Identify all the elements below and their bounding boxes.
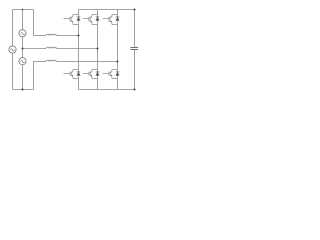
wire leg1 mid bbox=[78, 25, 80, 70]
wire leg2 bottom stub bbox=[97, 79, 99, 90]
wire leg3 mid bbox=[117, 25, 119, 70]
wire phase-c vertical to bottom bus bbox=[33, 62, 35, 90]
wire phase A right bbox=[56, 35, 78, 37]
node phase C / leg3 bbox=[116, 60, 118, 62]
inductor Lb bbox=[46, 47, 56, 48]
IGBT S3 bbox=[103, 15, 118, 25]
wire source branch 2 middle bbox=[22, 37, 24, 58]
diode D5 bbox=[96, 70, 100, 79]
node bottom source bus bbox=[21, 88, 23, 90]
inductor Lc bbox=[46, 60, 56, 61]
wire bottom DC rail bbox=[79, 89, 135, 91]
AC source V1 bbox=[19, 30, 26, 37]
node phase B tap bbox=[21, 47, 23, 49]
wire source branch 2 lower bbox=[22, 65, 24, 90]
node phase A / leg1 bbox=[77, 34, 79, 36]
wire bottom source bus bbox=[13, 89, 34, 91]
wire top DC rail bbox=[79, 9, 135, 11]
wire top source bus bbox=[13, 9, 34, 11]
wire leg3 top stub bbox=[117, 10, 119, 15]
node phase B / leg2 bbox=[96, 47, 98, 49]
wire source branch 1 lower bbox=[12, 53, 14, 89]
AC source V3 bbox=[19, 58, 26, 65]
diode D3 bbox=[116, 15, 120, 25]
wire leg2 top stub bbox=[97, 10, 99, 15]
wire leg1 top stub bbox=[78, 10, 80, 15]
wire leg2 mid bbox=[97, 25, 99, 70]
diode D2 bbox=[96, 15, 100, 25]
wire leg1 bottom stub bbox=[78, 79, 80, 90]
IGBT S4 bbox=[64, 70, 79, 79]
node DC rail bottom right bbox=[133, 88, 135, 90]
wire leg3 bottom stub bbox=[117, 79, 119, 90]
diode D1 bbox=[77, 15, 81, 25]
wire source branch 1 upper bbox=[12, 10, 14, 46]
inductor La bbox=[46, 34, 56, 35]
node DC rail top right bbox=[133, 8, 135, 10]
wire phase-a vertical from bus bbox=[33, 10, 35, 36]
wire DC bus upper bbox=[134, 10, 136, 48]
IGBT S2 bbox=[83, 15, 98, 25]
AC source V2 bbox=[9, 46, 16, 53]
diode D6 bbox=[116, 70, 120, 79]
IGBT S5 bbox=[83, 70, 98, 79]
wire phase B left bbox=[23, 48, 47, 50]
switch cells bbox=[64, 15, 120, 79]
IGBT S1 bbox=[64, 15, 79, 25]
capacitor C plates bbox=[130, 48, 138, 50]
wire phase A left bbox=[34, 35, 47, 37]
wire phase C right bbox=[56, 61, 117, 63]
IGBT S6 bbox=[103, 70, 118, 79]
wire DC bus lower bbox=[134, 50, 136, 90]
node top source bus bbox=[22, 9, 24, 11]
diode D4 bbox=[77, 70, 81, 79]
wire source branch 2 upper bbox=[22, 10, 24, 30]
wire phase C left bbox=[34, 61, 47, 63]
wire phase B right bbox=[56, 48, 97, 50]
